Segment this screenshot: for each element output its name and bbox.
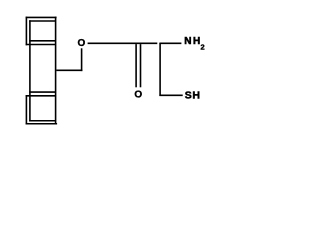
bond: CH2 up to ester O (vertical) (81, 48, 83, 71)
ring system: outer bottom bond of bottom ring (doubled line 2) (26, 123, 57, 125)
ring system: inner bottom bond of bottom ring (doubled line 1) (29, 120, 55, 122)
bond: CH2 to SH (horizontal) (159, 94, 182, 96)
bond: ester O to carbonyl C and on to alpha C (horizontal) (88, 42, 158, 44)
svg-text:H: H (193, 36, 200, 47)
ring system: outer top bond of bottom ring (doubled line 2) (26, 95, 56, 97)
bond: alpha C to NH2 (horizontal) (159, 42, 181, 44)
ring system: inner top bond of bottom ring (doubled line 1) (29, 91, 55, 93)
ring system: inner left vertical (shared left edge, runs full height) (29, 20, 31, 121)
bond: ring to CH2 (horizontal) (56, 69, 82, 71)
ring system: inner bottom bond of top ring (doubled line 1) (29, 40, 55, 42)
bond: C=O double bond line 2 (vertical) (140, 44, 142, 87)
ring system: outer left bond of bottom ring (25, 95, 27, 125)
ring system: outer left bond of top ring (25, 17, 27, 46)
ring system: outer top bond (top ring, doubled line 1) (26, 16, 57, 18)
ring system: outer bottom bond of top ring (doubled line 2) (26, 44, 56, 46)
ring system: right vertical (shared right edge, runs full height) (55, 17, 57, 125)
svg-text:O: O (134, 90, 142, 101)
bond: alpha C down to CH2 (vertical) (159, 43, 161, 96)
bond: C=O double bond line 1 (vertical) (135, 44, 137, 87)
svg-text:N: N (184, 36, 191, 47)
svg-text:2: 2 (201, 43, 205, 52)
ring system: inner top bond (top ring, doubled line 2) (29, 20, 55, 22)
svg-text:S: S (185, 89, 192, 101)
svg-text:H: H (192, 89, 200, 101)
svg-text:O: O (77, 38, 85, 49)
